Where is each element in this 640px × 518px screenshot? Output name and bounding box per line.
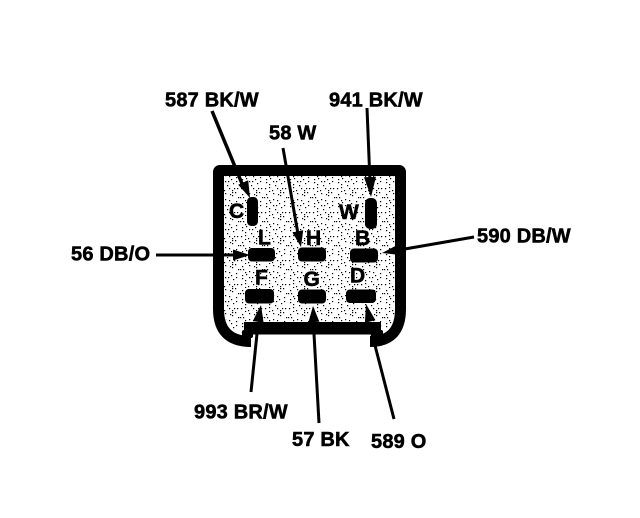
svg-text:D: D bbox=[350, 265, 365, 288]
wire 941 leader line to pin W bbox=[367, 108, 370, 182]
svg-text:C: C bbox=[229, 200, 244, 223]
wire 57 arrowhead bbox=[308, 306, 319, 322]
svg-text:56 DB/O: 56 DB/O bbox=[71, 244, 150, 266]
pin L bbox=[248, 248, 275, 262]
pin W bbox=[365, 198, 377, 229]
wire 56 leader line to pin L bbox=[156, 254, 234, 257]
svg-text:H: H bbox=[306, 227, 321, 250]
pin F label F bbox=[255, 267, 268, 290]
svg-text:993 BR/W: 993 BR/W bbox=[194, 402, 288, 424]
svg-text:G: G bbox=[304, 268, 320, 291]
wire 590 leader line to pin B bbox=[399, 237, 474, 250]
svg-text:W: W bbox=[339, 201, 359, 224]
pin B label B bbox=[355, 227, 370, 250]
pin C bbox=[247, 197, 258, 226]
wire 590 arrowhead bbox=[382, 244, 401, 255]
wire 58 arrowhead bbox=[292, 230, 303, 247]
connector body interior (stippled grey fill) bbox=[224, 176, 395, 333]
wire 587 leader line to pin C bbox=[212, 111, 243, 186]
wire label 57 BK bbox=[292, 429, 350, 451]
svg-text:589 O: 589 O bbox=[371, 431, 426, 453]
svg-text:L: L bbox=[258, 227, 271, 250]
connector body outline bbox=[219, 171, 401, 342]
pin C label C bbox=[229, 200, 244, 223]
wire label 587 BK/W bbox=[165, 90, 259, 112]
pin D label D bbox=[350, 265, 365, 288]
wire 56 arrowhead bbox=[233, 250, 250, 261]
wire 58 leader line to pin H bbox=[283, 148, 298, 234]
wire 941 arrowhead bbox=[364, 177, 376, 197]
svg-text:941 BK/W: 941 BK/W bbox=[329, 90, 423, 112]
svg-text:590 DB/W: 590 DB/W bbox=[477, 226, 571, 248]
wire 587 arrowhead bbox=[238, 180, 250, 198]
wire label 589 O bbox=[371, 431, 426, 453]
svg-text:58 W: 58 W bbox=[269, 123, 316, 145]
wire 993 arrowhead bbox=[253, 305, 264, 323]
wire label 993 BR/W bbox=[194, 402, 288, 424]
pin L label L bbox=[258, 227, 271, 250]
wire label 58 W bbox=[269, 123, 316, 145]
pin D bbox=[346, 290, 376, 304]
wire 589 arrowhead bbox=[365, 304, 376, 323]
svg-text:F: F bbox=[255, 267, 268, 290]
wire label 590 DB/W bbox=[477, 226, 571, 248]
svg-text:B: B bbox=[355, 227, 370, 250]
pin H label H bbox=[306, 227, 321, 250]
pin F bbox=[245, 289, 274, 304]
pin B bbox=[350, 249, 378, 263]
wire label 941 BK/W bbox=[329, 90, 423, 112]
wire 993 leader line to pin F bbox=[251, 324, 258, 392]
pin W label W bbox=[339, 201, 359, 224]
pin H bbox=[298, 248, 326, 262]
svg-text:57 BK: 57 BK bbox=[292, 429, 350, 451]
wire 57 leader line to pin G bbox=[314, 334, 319, 423]
pin G bbox=[298, 290, 326, 304]
pin G label G bbox=[304, 268, 320, 291]
connector bottom bar bbox=[242, 322, 383, 338]
wire 589 leader line to pin D bbox=[371, 330, 394, 419]
svg-text:587 BK/W: 587 BK/W bbox=[165, 90, 259, 112]
wire label 56 DB/O bbox=[71, 244, 150, 266]
